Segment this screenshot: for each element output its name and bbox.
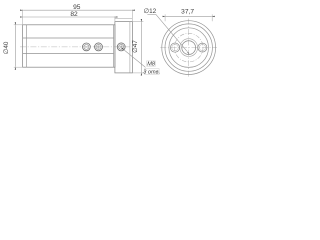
svg-text:82: 82 bbox=[70, 11, 78, 18]
hole right bbox=[198, 43, 207, 52]
body outline bbox=[23, 25, 115, 67]
svg-text:37,7: 37,7 bbox=[181, 8, 194, 15]
bore circle bbox=[182, 41, 196, 55]
svg-text:3 отв.: 3 отв. bbox=[143, 70, 160, 76]
dimension 13 (unlabelled short line) bbox=[114, 17, 116, 18]
label 3 otv bbox=[143, 69, 160, 76]
svg-text:∅40: ∅40 bbox=[3, 41, 10, 54]
label dia12 with leader bbox=[144, 8, 187, 51]
dia47 extension bottom bbox=[132, 72, 143, 74]
right view centerline vertical bbox=[188, 19, 190, 77]
body/flange joint line bbox=[113, 25, 115, 67]
dimension dia40 bbox=[3, 25, 16, 66]
flange circle C2 bbox=[165, 24, 212, 71]
body circle bbox=[169, 28, 209, 68]
pitch circle bbox=[174, 33, 203, 62]
extension line shoulder bbox=[114, 16, 116, 21]
extension line right end bbox=[131, 9, 133, 21]
bore line upper bbox=[23, 37, 114, 39]
flange chamfer line bbox=[129, 22, 131, 73]
dimension 82 bbox=[23, 11, 114, 18]
flange bbox=[115, 22, 132, 73]
hole left bbox=[170, 43, 179, 52]
right view centerline horizontal bbox=[160, 47, 217, 49]
bore chamfer circle bbox=[180, 39, 198, 57]
extension line left end bbox=[22, 9, 24, 24]
dimension dia47 bbox=[132, 22, 141, 72]
set screw A bbox=[83, 43, 91, 51]
dimension 95 bbox=[23, 4, 132, 11]
svg-text:∅47: ∅47 bbox=[132, 40, 139, 53]
dia40 extension bottom bbox=[14, 66, 23, 68]
dimension 37,7 bbox=[165, 8, 212, 21]
label M8 bbox=[147, 61, 156, 68]
dia47 extension top bbox=[132, 21, 143, 23]
set screw C bbox=[117, 43, 125, 51]
left face chamfer line bbox=[25, 25, 27, 67]
svg-text:95: 95 bbox=[73, 4, 81, 11]
bore line lower bbox=[23, 52, 114, 54]
leader M8 bbox=[124, 50, 145, 67]
side view centerline bbox=[20, 46, 136, 48]
dia40 extension top bbox=[14, 24, 23, 26]
svg-text:M8: M8 bbox=[147, 62, 156, 68]
set screw B bbox=[95, 43, 103, 51]
flange circle C1 bbox=[162, 21, 216, 75]
